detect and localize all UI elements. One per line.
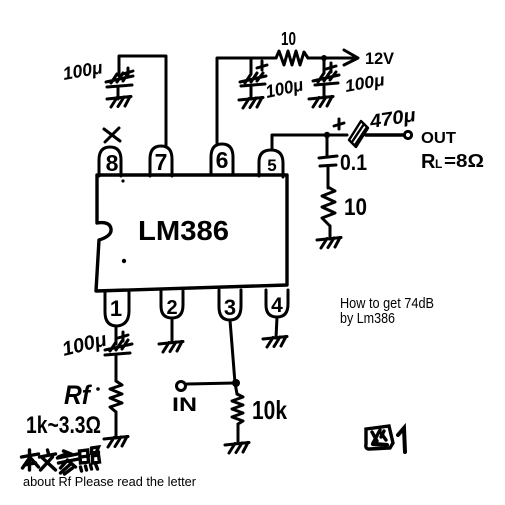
svg-text:by Lm386: by Lm386 (340, 310, 395, 327)
svg-text:IN: IN (172, 395, 197, 416)
svg-text:10: 10 (281, 29, 296, 49)
svg-text:8: 8 (106, 150, 119, 176)
svg-text:3: 3 (224, 295, 236, 320)
svg-text:10k: 10k (252, 395, 287, 425)
svg-text:Rf: Rf (64, 380, 93, 410)
svg-text:about Rf Please read the lette: about Rf Please read the letter (23, 475, 196, 489)
svg-text:R: R (421, 151, 436, 173)
svg-text:LM386: LM386 (138, 215, 229, 246)
svg-text:1k~3.3Ω: 1k~3.3Ω (26, 412, 101, 439)
svg-text:1: 1 (110, 296, 122, 321)
svg-text:6: 6 (216, 147, 229, 173)
svg-text:=8Ω: =8Ω (444, 151, 484, 171)
svg-text:4: 4 (271, 294, 283, 317)
svg-text:OUT: OUT (421, 130, 456, 147)
svg-text:12V: 12V (365, 49, 395, 68)
svg-text:7: 7 (155, 149, 168, 175)
svg-text:10: 10 (344, 194, 367, 221)
svg-text:2: 2 (166, 297, 177, 319)
svg-text:0.1: 0.1 (340, 150, 367, 175)
svg-text:L: L (435, 157, 442, 171)
svg-text:5: 5 (267, 156, 276, 175)
